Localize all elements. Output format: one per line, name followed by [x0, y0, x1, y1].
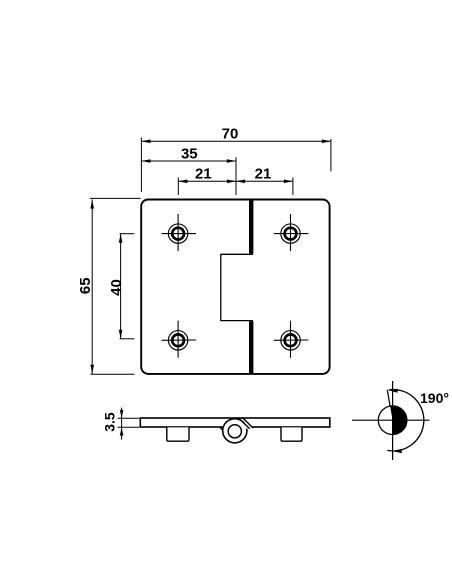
knuckle left step	[220, 427, 222, 430]
hinge center joint thick line upper	[249, 200, 253, 253]
svg-text:21: 21	[195, 166, 212, 183]
hole bottom-left circles	[172, 334, 184, 346]
extension line top (65)	[90, 197, 141, 199]
hinge center joint thick line lower	[249, 321, 253, 373]
extension line bottom (65)	[91, 373, 135, 375]
extension line top (3.5)	[118, 417, 140, 419]
extension line bottom (3.5)	[118, 426, 140, 428]
side view right tab	[281, 427, 302, 441]
dimension line 21 right	[236, 180, 293, 182]
angle arc 190 degrees	[387, 390, 424, 451]
hole bottom-left crosshair	[162, 321, 197, 358]
dimension line 70	[141, 140, 331, 142]
extension tick bottom (40)	[120, 338, 135, 340]
svg-text:3.5: 3.5	[102, 412, 118, 432]
hole bottom-right circles	[285, 334, 297, 346]
svg-text:40: 40	[108, 279, 125, 296]
svg-text:65: 65	[77, 277, 94, 294]
joint notch outline	[221, 254, 253, 320]
dimension line 65	[91, 200, 93, 374]
extension tick top (40)	[120, 233, 135, 235]
extension tick at right hole (21)	[292, 177, 294, 195]
svg-text:21: 21	[255, 166, 272, 183]
extension line left (70/35)	[140, 138, 142, 192]
knuckle wrap diagonal 2	[242, 417, 253, 428]
angle symbol vertical centerline	[392, 381, 394, 460]
knuckle wrap white gap	[245, 423, 253, 429]
hole top-right circles	[285, 228, 297, 240]
side view bar	[140, 418, 329, 427]
arc arrowhead top	[390, 389, 398, 393]
arc arrowhead bottom	[393, 449, 402, 453]
dimension line 40	[120, 234, 122, 339]
angle symbol horizontal centerline	[352, 419, 430, 421]
dimension line 21 left	[178, 180, 236, 182]
side view left tab	[167, 427, 189, 441]
extension line middle (35/21)	[235, 157, 237, 195]
extension tick at left hole (21)	[177, 177, 179, 195]
hinge plate outline (top view)	[141, 200, 329, 374]
hole top-left circles	[172, 228, 184, 240]
leaf direction line at 190 degrees	[387, 390, 390, 406]
knuckle inner circle	[228, 425, 241, 438]
knuckle wrap diagonal 1	[238, 417, 250, 428]
extension line right (70)	[330, 139, 332, 171]
dimension line 35	[141, 160, 236, 162]
angle symbol circle	[378, 406, 407, 435]
svg-text:70: 70	[222, 125, 239, 142]
knuckle outer circle	[223, 419, 247, 443]
dimension line 3.5	[121, 408, 123, 440]
hole top-left crosshair	[162, 214, 197, 251]
angle symbol filled 190 degree pie	[390, 406, 407, 435]
hole top-right crosshair	[274, 214, 309, 251]
svg-text:35: 35	[181, 145, 198, 162]
svg-text:190°: 190°	[420, 390, 449, 406]
hole bottom-right crosshair	[274, 321, 309, 358]
